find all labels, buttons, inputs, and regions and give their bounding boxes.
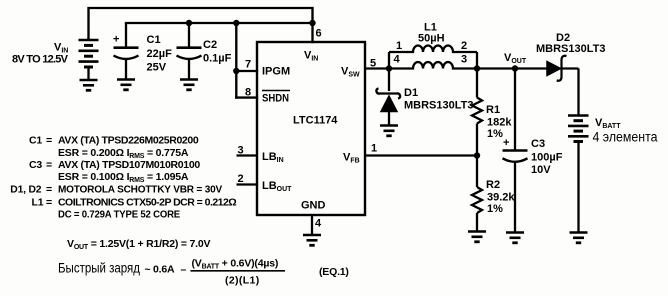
svg-text:LBIN: LBIN [262, 151, 284, 164]
svg-text:SHDN: SHDN [262, 93, 289, 105]
svg-text:VFB: VFB [343, 152, 360, 165]
svg-text:VBATT: VBATT [595, 117, 621, 130]
svg-text:LBOUT: LBOUT [262, 180, 292, 193]
svg-text:R2: R2 [486, 179, 500, 191]
svg-text:25V: 25V [147, 62, 167, 74]
svg-text:GND: GND [301, 200, 326, 212]
ground (VIN battery) [80, 80, 98, 90]
ground (C3) [506, 233, 524, 243]
svg-text:7: 7 [245, 59, 251, 71]
svg-text:R1: R1 [486, 104, 500, 116]
wire L1 right to VOUT to D2 [477, 67, 547, 69]
svg-text:ESR = 0.100Ω IRMS = 1.095A: ESR = 0.100Ω IRMS = 1.095A [58, 171, 189, 184]
node dot pins78 branch [233, 20, 239, 26]
wire pin7 [236, 70, 257, 72]
capacitor C3 [503, 69, 528, 233]
svg-text:=: = [46, 135, 52, 147]
svg-text:2: 2 [461, 40, 467, 52]
svg-text:(2)(L1): (2)(L1) [225, 275, 259, 287]
svg-text:8: 8 [245, 87, 251, 99]
wire pin6 vertical into IC [311, 23, 313, 42]
ground (C2) [180, 80, 198, 90]
op IC U1 LTC1174 body [257, 42, 365, 215]
ground (VBATT) [570, 233, 588, 243]
wire top rail from VIN battery to pin6 column [89, 8, 313, 39]
ground (C1) [117, 80, 135, 90]
svg-text:0.6A: 0.6A [153, 264, 175, 276]
svg-text:8V TO 12.5V: 8V TO 12.5V [12, 54, 69, 66]
svg-text:2: 2 [238, 173, 244, 185]
svg-text:=: = [46, 197, 52, 209]
svg-text:MOTOROLA SCHOTTKY VBR = 30V: MOTOROLA SCHOTTKY VBR = 30V [58, 184, 222, 196]
svg-text:182k: 182k [487, 117, 512, 129]
svg-text:1%: 1% [487, 203, 503, 215]
svg-text:+: + [113, 34, 119, 46]
battery VIN [79, 38, 99, 80]
inductor L1 [389, 46, 477, 69]
svg-text:MBRS130LT3: MBRS130LT3 [404, 100, 473, 112]
svg-text:C3: C3 [29, 159, 42, 171]
svg-text:IPGM: IPGM [262, 66, 290, 78]
svg-text:1: 1 [396, 40, 402, 52]
capacitor C1 [114, 23, 139, 80]
ground (R2) [468, 232, 486, 242]
svg-text:10V: 10V [531, 164, 551, 176]
diode D1 schottky [376, 69, 400, 126]
svg-text:Быстрый заряд: Быстрый заряд [58, 261, 140, 276]
svg-text:D1: D1 [404, 87, 418, 99]
note fraction bar [191, 270, 286, 272]
svg-text:=: = [46, 184, 52, 196]
wire pin4 to ground [311, 215, 313, 235]
svg-text:VIN: VIN [304, 50, 318, 63]
wire pin2 stub [237, 183, 258, 185]
node dot pin7 branch [233, 68, 239, 74]
svg-text:D1, D2: D1, D2 [10, 184, 41, 196]
svg-text:22µF: 22µF [147, 48, 173, 60]
svg-text:(VBATT + 0.6V)(4µs): (VBATT + 0.6V)(4µs) [192, 258, 279, 271]
svg-text:4 элемента: 4 элемента [593, 130, 658, 145]
svg-text:MBRS130LT3: MBRS130LT3 [536, 43, 605, 55]
resistor R2 [472, 156, 482, 232]
svg-text:100µF: 100µF [531, 152, 563, 164]
wire pin3 stub [237, 154, 258, 156]
wire vertical branch to pins 7,8 [235, 23, 237, 98]
node dot switch node [386, 65, 392, 71]
node dot C2 rail [186, 20, 192, 26]
node dot VFB junction [474, 152, 480, 158]
svg-text:6: 6 [316, 28, 322, 40]
svg-text:DC = 0.729A TYPE 52 CORE: DC = 0.729A TYPE 52 CORE [58, 209, 180, 221]
svg-text:COILTRONICS CTX50-2P DCR = 0.2: COILTRONICS CTX50-2P DCR = 0.212Ω [58, 197, 237, 209]
svg-text:VOUT = 1.25V(1 + R1/R2) = 7.0V: VOUT = 1.25V(1 + R1/R2) = 7.0V [67, 238, 211, 251]
svg-text:=: = [46, 159, 52, 171]
svg-text:–: – [181, 264, 187, 276]
svg-text:VSW: VSW [341, 66, 360, 79]
wire VFB to IC [365, 154, 477, 156]
svg-text:AVX (TA) TPSD107M010R0100: AVX (TA) TPSD107M010R0100 [58, 159, 200, 171]
svg-text:1%: 1% [487, 128, 503, 140]
svg-text:0.1µF: 0.1µF [203, 53, 232, 65]
battery VBATT [568, 116, 589, 233]
svg-text:C2: C2 [203, 39, 217, 51]
svg-text:VOUT: VOUT [504, 52, 527, 65]
node dot pin6 rail [309, 20, 315, 26]
node dot L1 right [474, 65, 480, 71]
node dot VOUT [512, 65, 518, 71]
svg-text:1: 1 [371, 143, 377, 155]
resistor R1 [472, 69, 482, 156]
wire pin5 to switch node [365, 67, 389, 69]
svg-text:3: 3 [461, 54, 467, 66]
diode D2 schottky [547, 56, 579, 81]
svg-text:L1: L1 [32, 197, 44, 209]
svg-text:C3: C3 [531, 138, 545, 150]
svg-text:4: 4 [394, 54, 401, 66]
svg-text:(EQ.1): (EQ.1) [319, 266, 349, 278]
wire second rail C1 to pin6 column [126, 22, 313, 24]
capacitor C2 [177, 23, 202, 80]
svg-text:C1: C1 [147, 34, 161, 46]
ground (D1) [380, 126, 398, 136]
wire D2 to battery [577, 69, 579, 116]
wire pin8 [236, 96, 257, 98]
svg-text:LTC1174: LTC1174 [293, 115, 338, 127]
svg-text:ESR = 0.200Ω IRMS = 0.775A: ESR = 0.200Ω IRMS = 0.775A [58, 147, 189, 160]
svg-text:4: 4 [315, 218, 322, 230]
svg-text:AVX (TA) TPSD226M025R0200: AVX (TA) TPSD226M025R0200 [58, 135, 199, 147]
svg-text:+: + [503, 137, 509, 149]
svg-text:C1: C1 [29, 135, 42, 147]
svg-text:~: ~ [145, 264, 151, 276]
svg-text:39.2k: 39.2k [487, 192, 515, 204]
ground (IC pin4) [303, 235, 321, 245]
svg-text:50µH: 50µH [418, 33, 445, 45]
